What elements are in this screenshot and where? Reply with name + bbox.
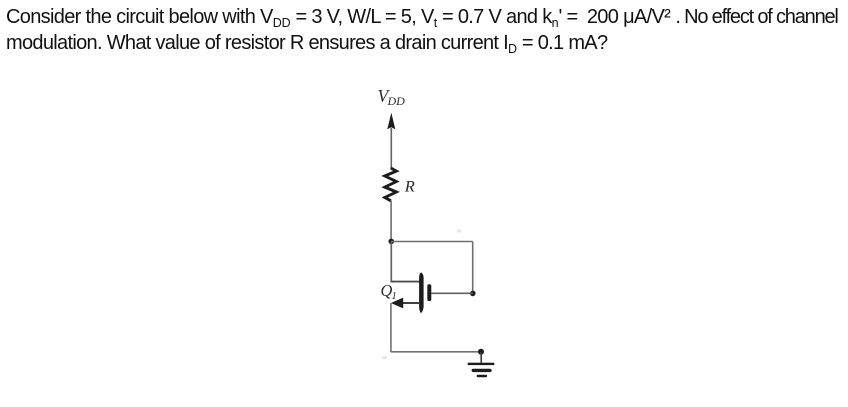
- faint scan artifact below bottom-left corner: [382, 356, 388, 360]
- svg-text:DD: DD: [387, 94, 406, 108]
- wire gate feedback horizontal: [431, 292, 473, 294]
- node A junction dot: [389, 239, 395, 245]
- ground: [468, 363, 495, 377]
- svg-text:1: 1: [392, 291, 397, 302]
- VDD arrow: [387, 113, 395, 169]
- svg-text:R: R: [404, 178, 415, 195]
- VDD label: [378, 86, 406, 108]
- ground junction dot: [478, 349, 484, 355]
- transistor Q1 source arrow: [391, 298, 403, 309]
- wire bottom horizontal to ground: [391, 351, 481, 353]
- wire node A to right (top of feedback loop): [391, 241, 472, 243]
- transistor Q1 channel bar: [419, 272, 424, 313]
- faint scan artifact near top of feedback loop: [457, 230, 462, 233]
- resistor R1: [385, 168, 397, 201]
- label Q1: [381, 281, 397, 302]
- ground stub: [480, 352, 482, 363]
- wire source horizontal: [400, 302, 419, 304]
- wire feedback right vertical: [472, 242, 474, 294]
- transistor Q1 gate bar: [427, 284, 431, 301]
- wire source down: [390, 303, 392, 352]
- wire node A down to drain: [390, 241, 392, 282]
- wire drain horizontal: [391, 281, 420, 283]
- wire resistor to node A: [390, 201, 392, 242]
- node gate junction dot: [470, 291, 476, 297]
